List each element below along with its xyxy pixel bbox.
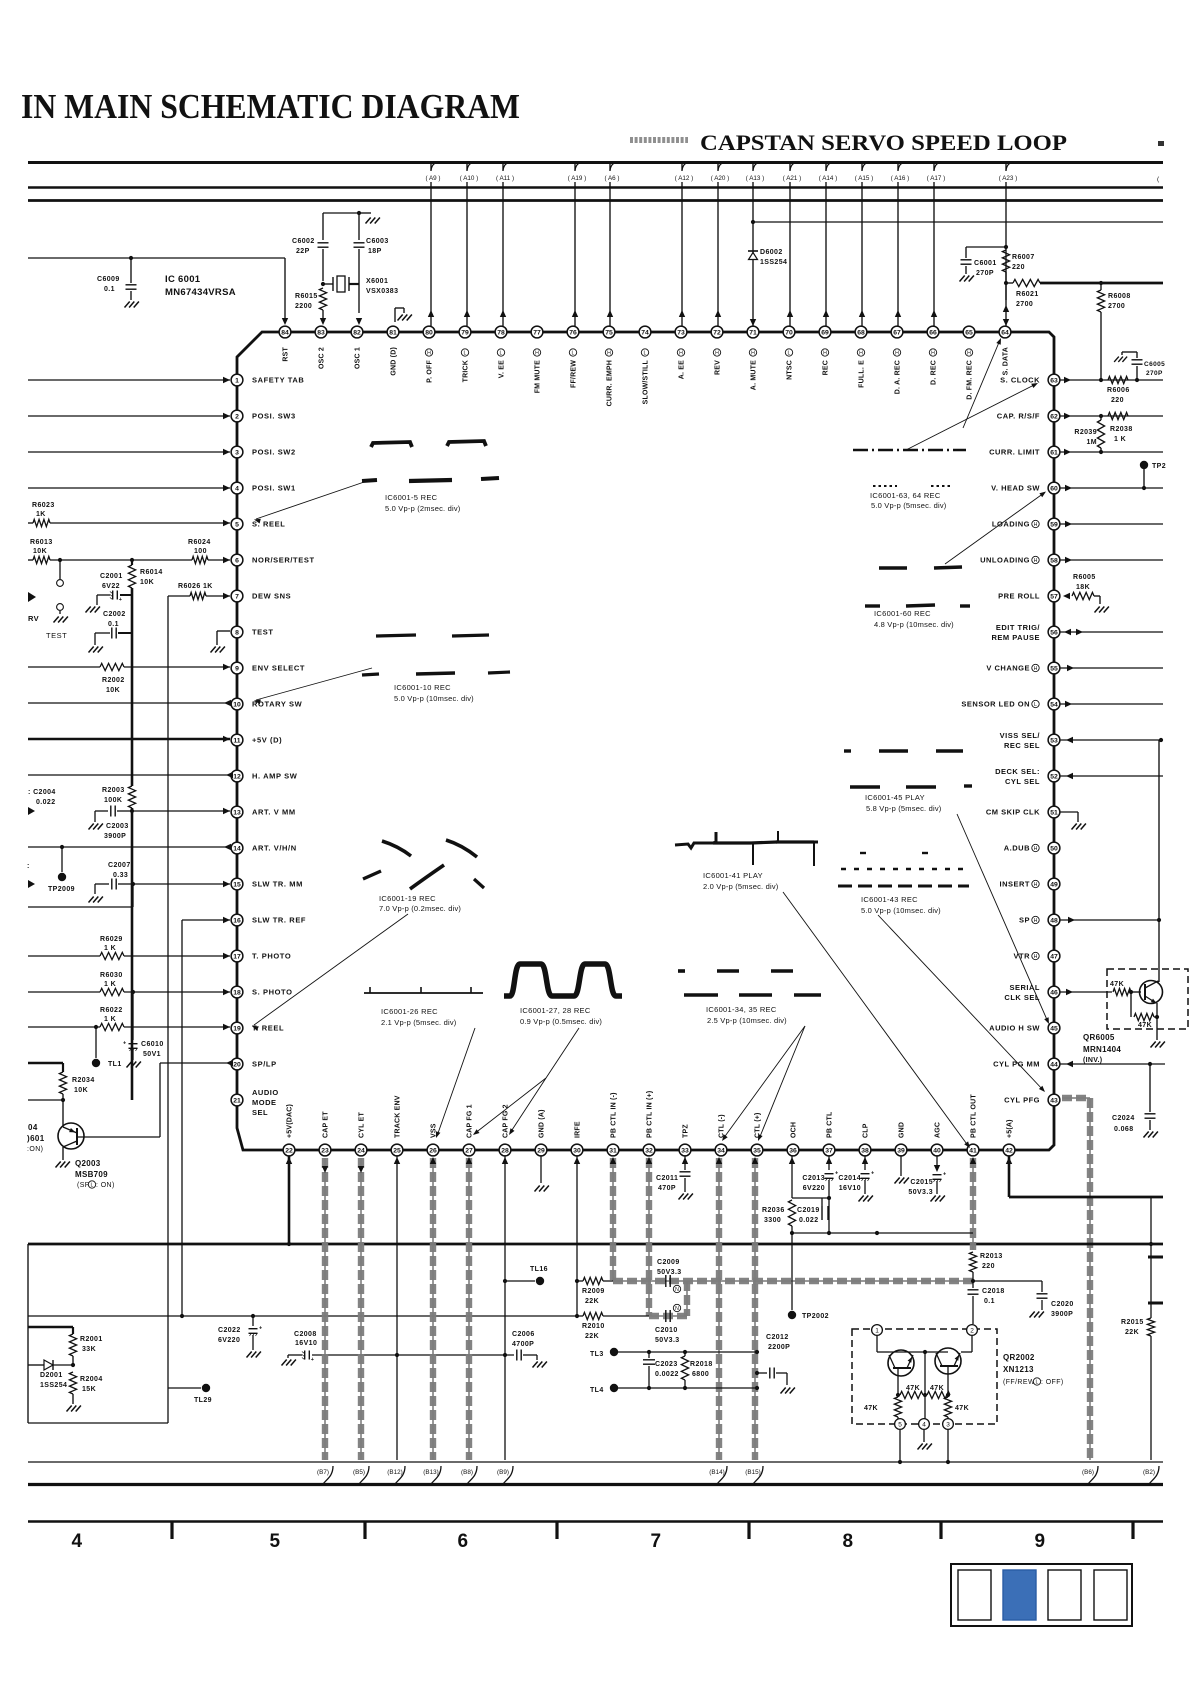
svg-text:TL3: TL3 bbox=[590, 1351, 604, 1358]
svg-text:2200: 2200 bbox=[295, 303, 312, 310]
pin 5 (QR2002) bbox=[895, 1419, 906, 1430]
svg-text:CM SKIP CLK: CM SKIP CLK bbox=[986, 808, 1040, 817]
pin 83 (OSC 2) bbox=[315, 326, 327, 338]
svg-text:2.5 Vp-p (10msec. div): 2.5 Vp-p (10msec. div) bbox=[707, 1016, 787, 1025]
pin 45 AUDIO H SW bbox=[1048, 1022, 1060, 1034]
svg-text:H: H bbox=[535, 350, 539, 356]
pin 77 (FM MUTE (H)) bbox=[531, 326, 543, 338]
wire tap (A17) to pin 66 bbox=[933, 163, 935, 326]
pin 70 (NTSC (L)) bbox=[783, 326, 795, 338]
svg-text:1: 1 bbox=[235, 377, 239, 384]
grid tick 7/8 bbox=[747, 1521, 750, 1539]
svg-text:5: 5 bbox=[235, 521, 239, 528]
pin 20 SP/LP bbox=[231, 1058, 243, 1070]
test lead TL16 bbox=[505, 1280, 535, 1282]
svg-text:R2004: R2004 bbox=[80, 1376, 103, 1383]
svg-text:15K: 15K bbox=[82, 1386, 96, 1393]
resistor 47K a (QR2002) bbox=[900, 1391, 923, 1398]
pin 9 ENV SELECT bbox=[231, 662, 243, 674]
svg-text:0.1: 0.1 bbox=[984, 1298, 995, 1305]
svg-text:R2038: R2038 bbox=[1110, 426, 1133, 433]
svg-text:VISS SEL/: VISS SEL/ bbox=[1000, 731, 1041, 740]
wire pin 36 drop bbox=[791, 1156, 793, 1198]
resistor R6013 10K + wire pin 6 bbox=[28, 559, 33, 561]
svg-text:18: 18 bbox=[233, 989, 241, 996]
wire tap (A15) to pin 68 bbox=[861, 163, 863, 326]
svg-text:0.022: 0.022 bbox=[799, 1217, 819, 1224]
resistor R2039 1M bbox=[1097, 420, 1104, 448]
resistor R2018 6800 bbox=[684, 1352, 686, 1356]
wire pin 30 drop bbox=[576, 1156, 578, 1316]
svg-text:43: 43 bbox=[1050, 1097, 1058, 1104]
svg-text:L: L bbox=[572, 350, 575, 356]
pin 4 POSI. SW1 bbox=[231, 482, 243, 494]
svg-text:10K: 10K bbox=[74, 1087, 88, 1094]
svg-text:17: 17 bbox=[233, 953, 241, 960]
wire tap (A23) to pin 64 bbox=[1005, 163, 1007, 326]
hatched marker bar left of subtitle bbox=[630, 137, 688, 143]
svg-text:9: 9 bbox=[235, 665, 239, 672]
wire pin 31 hatched bbox=[612, 1158, 614, 1281]
svg-text:71: 71 bbox=[749, 329, 757, 336]
svg-text:7.0 Vp-p (0.2msec. div): 7.0 Vp-p (0.2msec. div) bbox=[379, 904, 461, 913]
capacitor C2019 0.022 bbox=[821, 1198, 823, 1206]
svg-text:16V10: 16V10 bbox=[839, 1185, 861, 1192]
capacitor C6010 50V1 bbox=[132, 992, 134, 1040]
svg-text:(SP: (SP bbox=[77, 1182, 90, 1189]
svg-text:9: 9 bbox=[1035, 1531, 1046, 1552]
pin 46 SERIAL / CLK SEL bbox=[1048, 986, 1060, 998]
svg-text:POSI. SW3: POSI. SW3 bbox=[252, 412, 296, 421]
wire pin 58 UNLOADING bbox=[1065, 557, 1072, 563]
svg-text:3300: 3300 bbox=[764, 1217, 781, 1224]
svg-text:RV: RV bbox=[28, 614, 39, 623]
wire bus D (right, from A13 tap) bbox=[753, 221, 1163, 223]
pin 26 VSS bbox=[427, 1144, 439, 1156]
svg-text:+: + bbox=[123, 1041, 126, 1047]
svg-text:65: 65 bbox=[965, 329, 973, 336]
wire pin 2 POSI SW3 bbox=[28, 415, 230, 417]
svg-text:TEST: TEST bbox=[46, 631, 67, 640]
svg-text::ON): :ON) bbox=[27, 1146, 43, 1153]
cut mark top right bbox=[1158, 141, 1164, 146]
resistor R6023 1K + wire pin 5 bbox=[28, 522, 33, 524]
svg-text:FULL. E: FULL. E bbox=[859, 360, 866, 388]
pin 58 UNLOADING (H bbox=[1048, 554, 1060, 566]
svg-text:R2015: R2015 bbox=[1121, 1319, 1144, 1326]
wire thick stub y=1303 bbox=[1148, 1302, 1163, 1305]
svg-text:82: 82 bbox=[353, 329, 361, 336]
svg-text:35: 35 bbox=[753, 1147, 761, 1154]
svg-text:74: 74 bbox=[641, 329, 649, 336]
pin 66 (D. REC (H)) bbox=[927, 326, 939, 338]
svg-text:CLP: CLP bbox=[863, 1123, 870, 1138]
svg-text:EDIT TRIG/: EDIT TRIG/ bbox=[996, 623, 1041, 632]
wire tap (A16) to pin 67 bbox=[897, 163, 899, 326]
wire hatched (y=1316) + link bbox=[649, 1315, 687, 1317]
svg-text:PB CTL OUT: PB CTL OUT bbox=[971, 1094, 978, 1138]
svg-text:MSB709: MSB709 bbox=[75, 1170, 108, 1179]
svg-text:H: H bbox=[1034, 666, 1038, 672]
pin 2 POSI. SW3 bbox=[231, 410, 243, 422]
crystal X6001 VSX0383 bbox=[332, 277, 334, 291]
svg-text:SERIAL: SERIAL bbox=[1009, 983, 1040, 992]
ground (C2006) bbox=[533, 1362, 538, 1368]
svg-text:R2018: R2018 bbox=[690, 1361, 713, 1368]
svg-text:0.068: 0.068 bbox=[1114, 1126, 1134, 1133]
wire pin 22 drop bbox=[288, 1156, 291, 1244]
ground (C6010) bbox=[127, 1062, 132, 1068]
svg-text:1 K: 1 K bbox=[104, 945, 116, 952]
pin 40 AGC bbox=[931, 1144, 943, 1156]
svg-text:ART. V/H/N: ART. V/H/N bbox=[252, 844, 297, 853]
svg-text:S. CLOCK: S. CLOCK bbox=[1000, 376, 1040, 385]
wire pin 24 hatched to (B5) bbox=[360, 1158, 362, 1460]
svg-text:AUDIO H SW: AUDIO H SW bbox=[989, 1024, 1040, 1033]
svg-text:C2019: C2019 bbox=[797, 1207, 820, 1214]
svg-text:C6010: C6010 bbox=[141, 1041, 164, 1048]
bus line A (top) bbox=[28, 161, 1163, 164]
svg-text:TRACK ENV: TRACK ENV bbox=[395, 1095, 402, 1138]
svg-text:IC6001-34, 35 REC: IC6001-34, 35 REC bbox=[706, 1005, 777, 1014]
waveform IC6001-45 PLAY bbox=[850, 785, 880, 788]
svg-text:100: 100 bbox=[194, 548, 207, 555]
capacitor C2022 6V220 bbox=[252, 1316, 254, 1326]
wire net A (y=1316) bbox=[28, 1315, 577, 1317]
svg-text:FM MUTE: FM MUTE bbox=[535, 360, 542, 393]
svg-text:R6014: R6014 bbox=[140, 569, 163, 576]
svg-text:100K: 100K bbox=[104, 797, 122, 804]
svg-text:C2020: C2020 bbox=[1051, 1301, 1074, 1308]
wire +5V rail (thick, y=1244) bbox=[28, 1243, 1163, 1246]
pin 38 CLP bbox=[859, 1144, 871, 1156]
svg-text:52: 52 bbox=[1050, 773, 1058, 780]
svg-text:R6029: R6029 bbox=[100, 936, 123, 943]
svg-text:50V3.3: 50V3.3 bbox=[657, 1269, 682, 1276]
svg-text:TPZ: TPZ bbox=[683, 1124, 690, 1138]
svg-text:5: 5 bbox=[270, 1531, 281, 1552]
wire pin 28 to (B9) bbox=[504, 1156, 506, 1460]
svg-text:(FF/REW: (FF/REW bbox=[1003, 1379, 1035, 1386]
svg-text:C2018: C2018 bbox=[982, 1288, 1005, 1295]
svg-text:R6005: R6005 bbox=[1073, 574, 1096, 581]
svg-text:AGC: AGC bbox=[935, 1122, 942, 1138]
wire y=1281 thin to C2020 bbox=[973, 1280, 1042, 1282]
resistor R6005 18K into pin 57 bbox=[1063, 593, 1070, 599]
svg-text:32: 32 bbox=[645, 1147, 653, 1154]
svg-text:IC6001-5 REC: IC6001-5 REC bbox=[385, 493, 438, 502]
pin 5 S. REEL bbox=[231, 518, 243, 530]
svg-text:POSI. SW1: POSI. SW1 bbox=[252, 484, 296, 493]
svg-text:+5(A): +5(A) bbox=[1007, 1119, 1014, 1138]
pin 14 ART. V/H/N bbox=[231, 842, 243, 854]
svg-text:0.0022: 0.0022 bbox=[655, 1371, 679, 1378]
svg-text:4700P: 4700P bbox=[512, 1341, 534, 1348]
pin 17 T. PHOTO bbox=[231, 950, 243, 962]
wire +B to R2034 (thick) bbox=[28, 1062, 63, 1065]
wire C2006 net (y=1353) bbox=[399, 1354, 514, 1356]
svg-text:C2011: C2011 bbox=[656, 1175, 678, 1182]
test point TP2002 bbox=[791, 1233, 793, 1310]
svg-text:5.0 Vp-p (5msec. div): 5.0 Vp-p (5msec. div) bbox=[871, 501, 947, 510]
svg-text:C2012: C2012 bbox=[766, 1334, 789, 1341]
ground (C2003) bbox=[89, 824, 94, 830]
test lead TL1 bbox=[95, 1027, 97, 1058]
svg-text:69: 69 bbox=[821, 329, 829, 336]
svg-text:SENSOR LED ON: SENSOR LED ON bbox=[961, 700, 1030, 709]
resistor R6026 1K + wire pin 7 bbox=[168, 595, 190, 597]
svg-text:+: + bbox=[311, 1357, 314, 1363]
svg-text:4: 4 bbox=[72, 1531, 83, 1552]
svg-text:( A11 ): ( A11 ) bbox=[496, 175, 514, 182]
ground (C6005) bbox=[1114, 357, 1119, 362]
capacitor C6009 bbox=[130, 258, 132, 283]
resistor R6007 220 bbox=[1002, 250, 1009, 272]
svg-text:C6009: C6009 bbox=[97, 276, 120, 283]
wire RST net to pin 84 bbox=[28, 257, 285, 259]
svg-text:CYL PG MM: CYL PG MM bbox=[993, 1060, 1040, 1069]
callout arrow to pin 64 bbox=[963, 340, 1000, 428]
svg-text:47K: 47K bbox=[906, 1385, 920, 1392]
pin 74 (SLOW/STILL (L)) bbox=[639, 326, 651, 338]
svg-text:R6007: R6007 bbox=[1012, 254, 1035, 261]
svg-text:48: 48 bbox=[1050, 917, 1058, 924]
diode D6002 1SS254 bbox=[748, 250, 758, 252]
svg-text:H: H bbox=[1034, 918, 1038, 924]
svg-text:34: 34 bbox=[717, 1147, 725, 1154]
svg-text:CAPSTAN SERVO SPEED LOOP: CAPSTAN SERVO SPEED LOOP bbox=[700, 130, 1067, 155]
wire pin 10 ROTARY SW bbox=[28, 702, 230, 704]
wire net y=1233 bbox=[792, 1232, 973, 1234]
wire pin 40 drop bbox=[936, 1156, 938, 1170]
svg-text:D. A. REC: D. A. REC bbox=[895, 360, 902, 394]
svg-text:R2010: R2010 bbox=[582, 1323, 605, 1330]
svg-text:3: 3 bbox=[946, 1421, 950, 1428]
svg-text:75: 75 bbox=[605, 329, 613, 336]
wire pin 29 to ground bbox=[540, 1156, 542, 1183]
wire pin 27 hatched to (B8) bbox=[468, 1158, 470, 1460]
pin 4 (QR2002) bbox=[919, 1419, 930, 1430]
svg-text:+: + bbox=[871, 1171, 874, 1177]
resistor R2004 15K bbox=[69, 1372, 76, 1394]
svg-text:76: 76 bbox=[569, 329, 577, 336]
pin 42 +5(A) bbox=[1003, 1144, 1015, 1156]
svg-text:C2006: C2006 bbox=[512, 1331, 535, 1338]
svg-text:2: 2 bbox=[235, 413, 239, 420]
svg-text:TEST: TEST bbox=[252, 628, 274, 637]
svg-text:( A12 ): ( A12 ) bbox=[675, 175, 694, 182]
svg-text:C6003: C6003 bbox=[366, 238, 389, 245]
callout arrow to pin 5 bbox=[256, 480, 370, 519]
pin 62 CAP. R/S/F bbox=[1048, 410, 1060, 422]
svg-text:72: 72 bbox=[713, 329, 721, 336]
ground (C2014) bbox=[859, 1196, 864, 1202]
svg-text:TL16: TL16 bbox=[530, 1266, 548, 1273]
svg-text:R2034: R2034 bbox=[72, 1077, 95, 1084]
wire thick stub y=1257 bbox=[1148, 1256, 1163, 1259]
svg-text:CYL SEL: CYL SEL bbox=[1005, 777, 1040, 786]
svg-text:IC6001-63, 64 REC: IC6001-63, 64 REC bbox=[870, 491, 941, 500]
svg-text:R2002: R2002 bbox=[102, 677, 125, 684]
svg-text:IC6001-26 REC: IC6001-26 REC bbox=[381, 1007, 438, 1016]
wire pin 48 SP bbox=[1068, 917, 1075, 923]
svg-text:H. AMP SW: H. AMP SW bbox=[252, 772, 298, 781]
svg-text:0.33: 0.33 bbox=[113, 872, 128, 879]
ground (C2022) bbox=[247, 1352, 252, 1358]
svg-text:C2001: C2001 bbox=[100, 573, 123, 580]
pin 1 SAFETY TAB bbox=[231, 374, 243, 386]
wire tap (A20) to pin 72 bbox=[717, 163, 719, 326]
svg-text:( A15 ): ( A15 ) bbox=[855, 175, 874, 182]
svg-text:P. OFF: P. OFF bbox=[427, 359, 434, 382]
svg-text:0.9 Vp-p (0.5msec. div): 0.9 Vp-p (0.5msec. div) bbox=[520, 1017, 602, 1026]
svg-text:47K: 47K bbox=[1138, 1022, 1152, 1029]
svg-text:270P: 270P bbox=[976, 270, 994, 277]
svg-text:RST: RST bbox=[283, 346, 290, 361]
svg-text:57: 57 bbox=[1050, 593, 1058, 600]
svg-text:T. PHOTO: T. PHOTO bbox=[252, 952, 291, 961]
svg-text:+5V (D): +5V (D) bbox=[252, 736, 282, 745]
wire pin 38 drop bbox=[864, 1156, 866, 1170]
svg-text:)601: )601 bbox=[27, 1134, 45, 1143]
wire pin 41 hatched bbox=[972, 1158, 974, 1250]
svg-text:16: 16 bbox=[233, 917, 241, 924]
pin 68 (FULL. E (H)) bbox=[855, 326, 867, 338]
svg-text:CURR. EMPH: CURR. EMPH bbox=[607, 360, 614, 406]
svg-text:84: 84 bbox=[281, 329, 289, 336]
pin 36 OCH bbox=[787, 1144, 799, 1156]
pin 67 (D. A. REC (H)) bbox=[891, 326, 903, 338]
svg-text:47K: 47K bbox=[930, 1385, 944, 1392]
resistor R6029 1K + wire pin 17 bbox=[28, 955, 100, 957]
svg-text:(B6): (B6) bbox=[1082, 1469, 1094, 1476]
svg-text:VSX0383: VSX0383 bbox=[366, 288, 398, 295]
svg-text:470P: 470P bbox=[658, 1185, 676, 1192]
wire tap (A19) to pin 76 bbox=[574, 163, 576, 326]
ground (OSC) bbox=[366, 218, 371, 224]
svg-text:X6001: X6001 bbox=[366, 278, 388, 285]
resistor 47K b (QR2002) bbox=[927, 1391, 950, 1398]
svg-text:IC6001-43 REC: IC6001-43 REC bbox=[861, 895, 918, 904]
pin 30 IRFE bbox=[571, 1144, 583, 1156]
svg-text:C2023: C2023 bbox=[655, 1361, 678, 1368]
resistor R6024 100 into pin 6 bbox=[192, 556, 208, 563]
svg-text:22P: 22P bbox=[296, 248, 310, 255]
svg-text:R2036: R2036 bbox=[762, 1207, 785, 1214]
pin 21 AUDIO MODE SEL bbox=[231, 1094, 243, 1106]
svg-text:70: 70 bbox=[785, 329, 793, 336]
transistor Q (QR2002 right) bbox=[935, 1348, 961, 1374]
svg-text:63: 63 bbox=[1050, 377, 1058, 384]
svg-text:22K: 22K bbox=[1125, 1329, 1139, 1336]
pin 44 CYL PG MM bbox=[1048, 1058, 1060, 1070]
svg-text:REC SEL: REC SEL bbox=[1004, 741, 1040, 750]
svg-text:42: 42 bbox=[1005, 1147, 1013, 1154]
wire node above pin 64 bbox=[1004, 245, 1008, 249]
svg-text:: C2004: : C2004 bbox=[28, 789, 56, 796]
waveform IC6001-19 REC bbox=[382, 841, 411, 856]
navigation cell 4 bbox=[1094, 1570, 1127, 1620]
svg-text:1 K: 1 K bbox=[104, 981, 116, 988]
ground (pin 29) bbox=[535, 1186, 540, 1192]
svg-text:41: 41 bbox=[969, 1147, 977, 1154]
svg-text:XN1213: XN1213 bbox=[1003, 1365, 1034, 1374]
svg-text:6: 6 bbox=[235, 557, 239, 564]
capacitor C2011 470P bbox=[680, 1171, 691, 1173]
waveform IC6001-27,28 REC bbox=[504, 964, 622, 996]
svg-text:0.1: 0.1 bbox=[104, 286, 115, 293]
test switch contact (lower) + TEST bbox=[57, 604, 64, 611]
pin 75 (CURR. EMPH (H)) bbox=[603, 326, 615, 338]
resistor R2002 10K + wire pin 9 bbox=[28, 666, 100, 668]
svg-text:1SS254: 1SS254 bbox=[760, 259, 787, 266]
svg-text:(B13): (B13) bbox=[423, 1469, 438, 1476]
svg-text:(B5): (B5) bbox=[353, 1469, 365, 1476]
svg-text:R6024: R6024 bbox=[188, 539, 211, 546]
resistor R6015 2200 bbox=[319, 288, 326, 310]
wire pin 42 thick +5(A) bbox=[1008, 1156, 1011, 1197]
svg-text:R6022: R6022 bbox=[100, 1007, 123, 1014]
pin 23 CAP ET bbox=[319, 1144, 331, 1156]
capacitor C2009 50V3.3 bbox=[665, 1275, 667, 1287]
svg-text:1: 1 bbox=[875, 1327, 879, 1334]
wire pin 3 POSI SW2 bbox=[28, 451, 230, 453]
svg-text:66: 66 bbox=[929, 329, 937, 336]
svg-text:C2007: C2007 bbox=[108, 862, 131, 869]
pin 54 SENSOR LED ON (L bbox=[1048, 698, 1060, 710]
svg-text:V. HEAD SW: V. HEAD SW bbox=[991, 484, 1040, 493]
wire pin 43 CYL PFG hatched to (B6) bbox=[1062, 1097, 1090, 1099]
callout arrow to pin 45 bbox=[957, 814, 1048, 1022]
resistor 47K (base QR6005) bbox=[1113, 988, 1131, 995]
svg-text:6: 6 bbox=[458, 1531, 469, 1552]
svg-text:H: H bbox=[751, 350, 755, 356]
svg-text:PB CTL IN (+): PB CTL IN (+) bbox=[647, 1091, 654, 1138]
svg-text:+: + bbox=[259, 1326, 262, 1332]
pin 28 CAP FG 2 bbox=[499, 1144, 511, 1156]
pin 18 S. PHOTO bbox=[231, 986, 243, 998]
svg-text:SP: SP bbox=[1019, 916, 1030, 925]
svg-text:MRN1404: MRN1404 bbox=[1083, 1045, 1121, 1054]
capacitor C2003 3900P bbox=[95, 810, 108, 812]
pin 35 CTL (+) bbox=[751, 1144, 763, 1156]
svg-text:TL4: TL4 bbox=[590, 1387, 604, 1394]
svg-text:MODE: MODE bbox=[252, 1098, 277, 1107]
pin 41 PB CTL OUT bbox=[967, 1144, 979, 1156]
svg-text:R6015: R6015 bbox=[295, 293, 318, 300]
svg-text:: ON): : ON) bbox=[96, 1182, 115, 1189]
svg-text:1 K: 1 K bbox=[1114, 436, 1126, 443]
wire pin 61 CURR LIMIT bbox=[1064, 449, 1071, 455]
pin 43 CYL PFG bbox=[1048, 1094, 1060, 1106]
svg-text:C2015: C2015 bbox=[910, 1179, 933, 1186]
svg-text:SLOW/STILL: SLOW/STILL bbox=[643, 359, 650, 404]
resistor R2036 3300 bbox=[788, 1200, 795, 1226]
test switch contact (upper) bbox=[59, 560, 61, 579]
pin 53 VISS SEL/ / REC SEL bbox=[1048, 734, 1060, 746]
svg-text:QR6005: QR6005 bbox=[1083, 1033, 1115, 1042]
svg-text:L: L bbox=[91, 1182, 94, 1188]
svg-text:OSC 1: OSC 1 bbox=[355, 347, 362, 369]
svg-text:3: 3 bbox=[235, 449, 239, 456]
svg-text:44: 44 bbox=[1050, 1061, 1058, 1068]
svg-text:( A20 ): ( A20 ) bbox=[711, 175, 730, 182]
svg-text:L: L bbox=[788, 350, 791, 356]
svg-text:16V10: 16V10 bbox=[295, 1340, 317, 1347]
svg-text:6V22: 6V22 bbox=[102, 583, 120, 590]
svg-text:CAP ET: CAP ET bbox=[323, 1111, 330, 1138]
svg-text:49: 49 bbox=[1050, 881, 1058, 888]
